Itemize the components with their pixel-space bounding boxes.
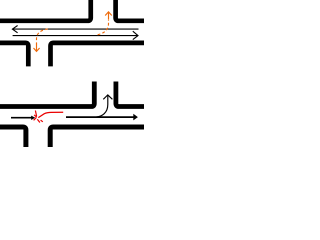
road edge: top bar left segment + upward side-road left wall (0, 0, 91, 21)
road edge: top bar right segment + upward side-road right wall (116, 0, 147, 21)
road edge: bottom bar left segment + downward side-road left wall (0, 43, 28, 67)
orange dashed turn arrow into upper side road (up) (98, 12, 112, 35)
red conflict path curving from collision point to the right (38, 112, 63, 117)
road edge: bottom bar right segment + downward side-road right wall (51, 43, 148, 67)
red collision asterisk (34, 111, 43, 123)
road edge: top bar right segment + upward side-road right wall (116, 82, 147, 107)
road edge: top bar left segment + upward side-road left wall (0, 82, 94, 107)
lower lane line with right-pointing open arrow (13, 31, 138, 39)
upper lane line with left-pointing open arrow (12, 26, 138, 33)
road edge: bottom bar left segment + downward side-road left wall (0, 127, 26, 147)
black turn curve up into upper side road (97, 95, 113, 117)
road edge: bottom bar right segment + downward side-road right wall (50, 127, 147, 147)
orange dashed turn arrow into lower side road (down) (34, 29, 48, 52)
short approach arrow from left (filled head) (11, 116, 35, 120)
long lane arrow to the right (filled head) (66, 114, 138, 121)
